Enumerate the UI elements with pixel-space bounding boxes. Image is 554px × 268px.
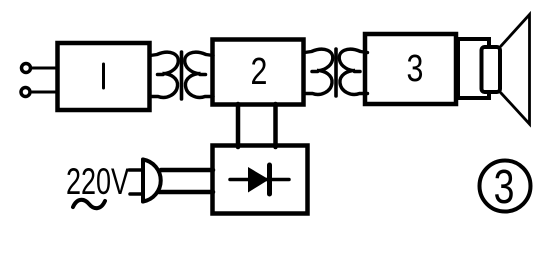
svg-text:220V: 220V [66, 161, 129, 202]
svg-text:2: 2 [251, 51, 268, 93]
svg-text:3: 3 [494, 161, 515, 215]
svg-text:3: 3 [407, 48, 424, 90]
